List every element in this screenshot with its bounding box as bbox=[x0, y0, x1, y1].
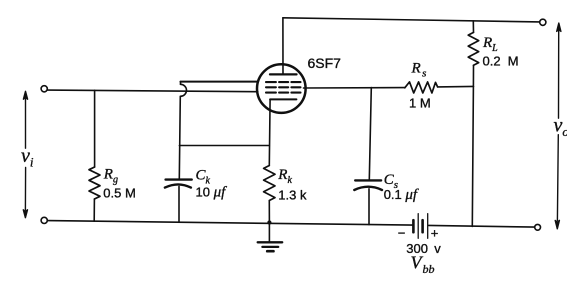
wire Cs bottom bbox=[368, 189, 370, 225]
ground bar 2 bbox=[262, 246, 278, 248]
capacitor C1 Ck bottom plate bbox=[165, 184, 191, 187]
ground bar 1 bbox=[258, 241, 283, 243]
tube U1 grid row 1 bbox=[266, 81, 301, 83]
svg-text:vo: vo bbox=[554, 115, 567, 140]
capacitor C2 Cs bottom plate bbox=[354, 187, 382, 190]
wire Cs tap down bbox=[369, 88, 371, 180]
battery B1 plate tall bbox=[417, 214, 419, 239]
resistor R1 Rg bbox=[89, 167, 100, 199]
wire bottom rail left bbox=[47, 221, 412, 226]
wire input grid bbox=[47, 90, 257, 92]
tube U1 cathode bbox=[270, 98, 296, 100]
wire cathode link bbox=[179, 145, 269, 147]
terminal top-right bbox=[540, 19, 546, 25]
svg-text:vi: vi bbox=[21, 145, 34, 170]
svg-text:0.2 M: 0.2 M bbox=[483, 53, 519, 68]
tube U1 envelope bbox=[257, 64, 306, 113]
tube U1 plate bar bbox=[270, 73, 297, 75]
resistor R3 Rs bbox=[405, 82, 438, 93]
ground stem bbox=[268, 223, 270, 243]
input terminal top-left bbox=[41, 86, 47, 92]
wire hop corner bbox=[180, 82, 182, 85]
svg-text:1 M: 1 M bbox=[409, 96, 431, 111]
wire RL top bbox=[472, 21, 474, 33]
terminal bottom-right bbox=[535, 224, 541, 230]
svg-text:Rk: Rk bbox=[277, 167, 292, 186]
capacitor C1 Ck top plate bbox=[166, 178, 192, 180]
input terminal bottom-left bbox=[41, 217, 47, 223]
wire RL bottom to signal bbox=[472, 65, 474, 86]
svg-text:Rg: Rg bbox=[103, 167, 118, 186]
ground bar 3 bbox=[267, 250, 273, 253]
wire Rk bottom bbox=[268, 201, 270, 223]
tube U1 grid row 3 bbox=[266, 92, 301, 94]
wire hop arc bbox=[181, 84, 187, 96]
junction dot bbox=[267, 220, 271, 224]
svg-text:6SF7: 6SF7 bbox=[308, 55, 342, 71]
wire Ck bottom bbox=[178, 186, 180, 222]
wire bottom rail right bbox=[429, 225, 535, 227]
tube U1 grid row 2 bbox=[266, 86, 301, 88]
wire Rg bottom bbox=[93, 199, 95, 221]
battery B1 plate short bbox=[412, 220, 415, 232]
wire RL junction down to battery rail bbox=[472, 86, 473, 226]
capacitor C2 Cs top plate bbox=[355, 179, 381, 181]
svg-text:0.5 M: 0.5 M bbox=[103, 185, 136, 200]
battery B1 plate short 2 bbox=[421, 220, 424, 232]
wire Rg branch top bbox=[94, 90, 96, 167]
wire cathode lead bbox=[268, 99, 271, 165]
wire top rail bbox=[283, 18, 540, 22]
battery B1 plate tall 2 bbox=[427, 214, 429, 239]
wire plate lead bbox=[282, 18, 284, 75]
wire right of Rs bbox=[438, 85, 474, 88]
vo arrow bbox=[555, 23, 561, 229]
svg-text:+: + bbox=[431, 226, 439, 241]
svg-text:0.1 μf: 0.1 μf bbox=[384, 187, 419, 203]
vi arrow bbox=[23, 91, 27, 217]
resistor R2 Rk bbox=[264, 166, 275, 201]
svg-text:RL: RL bbox=[482, 35, 498, 54]
wire hop down to Ck bbox=[179, 96, 180, 179]
svg-text:1.3 k: 1.3 k bbox=[278, 187, 307, 202]
svg-text:10 μf: 10 μf bbox=[196, 184, 228, 200]
svg-text:Rs: Rs bbox=[411, 60, 427, 79]
wire screen lead to hop bbox=[181, 81, 259, 83]
resistor R4 RL bbox=[468, 32, 479, 65]
svg-text:−: − bbox=[398, 226, 406, 241]
wire signal left of Rs bbox=[304, 87, 405, 89]
